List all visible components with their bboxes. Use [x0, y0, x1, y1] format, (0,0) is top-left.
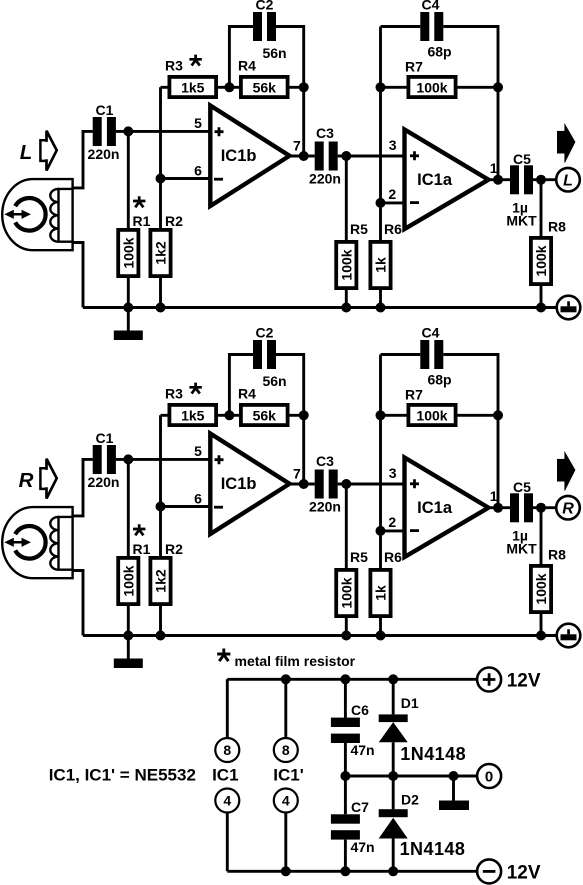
- svg-text:4: 4: [282, 793, 290, 809]
- svg-text:1N4148: 1N4148: [400, 744, 466, 764]
- svg-text:IC1: IC1: [212, 765, 238, 784]
- svg-text:L: L: [20, 141, 33, 164]
- svg-text:12V: 12V: [507, 862, 541, 883]
- svg-text:8: 8: [223, 742, 231, 758]
- svg-text:D2: D2: [401, 792, 419, 808]
- svg-text:R: R: [19, 469, 34, 492]
- svg-text:12V: 12V: [507, 671, 541, 692]
- svg-text:47n: 47n: [350, 839, 374, 855]
- svg-text:0: 0: [485, 768, 493, 785]
- svg-text:C7: C7: [351, 799, 369, 815]
- svg-text:D1: D1: [401, 695, 419, 711]
- svg-text:metal film resistor: metal film resistor: [235, 653, 356, 669]
- svg-text:R: R: [562, 500, 574, 517]
- svg-text:C6: C6: [351, 702, 369, 718]
- svg-text:1N4148: 1N4148: [400, 839, 466, 859]
- svg-text:4: 4: [223, 793, 231, 809]
- svg-text:IC1': IC1': [273, 765, 304, 784]
- svg-text:8: 8: [282, 742, 290, 758]
- svg-text:L: L: [563, 172, 573, 189]
- svg-text:47n: 47n: [350, 742, 374, 758]
- svg-text:IC1, IC1' = NE5532: IC1, IC1' = NE5532: [49, 765, 196, 784]
